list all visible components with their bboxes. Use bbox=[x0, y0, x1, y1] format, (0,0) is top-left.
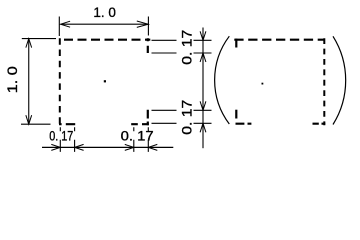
package outline (left view) bottom edge right terminal bbox=[131, 123, 149, 125]
dimension 0.17 bottom-right: right-pointing arrowhead bbox=[125, 144, 134, 150]
dimension 0.17 bottom-left: right-pointing arrowhead bbox=[51, 144, 60, 150]
dimension 1.0 left: top arrowhead bbox=[26, 39, 32, 48]
package outline (left view) bottom edge left terminal bbox=[59, 123, 75, 125]
dimension 0.17 bottom-right: left extension tick bbox=[133, 127, 135, 152]
dimension 0.17 right-top: upper extension line bbox=[152, 39, 212, 41]
dimension 0.17 right-bottom: upper extension line bbox=[152, 109, 212, 111]
svg-text:0. 17: 0. 17 bbox=[121, 129, 154, 145]
package outline (left view) left edge bbox=[59, 38, 61, 125]
package outline (right view) right edge bbox=[323, 38, 325, 125]
package outline (left view) right edge bottom terminal bbox=[147, 110, 149, 126]
dimension 0.17 bottom-right: right extension tick bbox=[147, 127, 149, 152]
svg-text:1. 0: 1. 0 bbox=[5, 66, 21, 93]
dimension 0.17 right-top: lower extension line bbox=[152, 52, 212, 54]
dimension 0.17 bottom-left: left extension tick bbox=[59, 127, 61, 152]
dimension 1.0 left: bottom arrowhead bbox=[26, 115, 32, 124]
dimension 0.17 bottom: dimension line bbox=[42, 146, 173, 148]
center mark dot (right view) bbox=[262, 83, 264, 85]
package outline (left view) right edge top terminal bbox=[147, 38, 149, 53]
dimension 0.17 right-top: down arrowhead bbox=[200, 31, 206, 40]
dimension 0.17 bottom-left: right extension tick bbox=[74, 127, 76, 152]
dimension 0.17 bottom-left: left-pointing arrowhead bbox=[75, 144, 84, 150]
dimension right: shared vertical dimension line bbox=[202, 28, 204, 149]
package outline (right view) top edge bbox=[234, 39, 324, 41]
dimension 0.17 bottom-right: left-pointing arrowhead bbox=[148, 144, 157, 150]
dimension 0.17 right-bottom: down arrowhead bbox=[200, 101, 206, 110]
dimension 1.0 left: bottom extension line bbox=[21, 123, 51, 125]
svg-text:0. 17: 0. 17 bbox=[180, 30, 196, 65]
dimension 1.0 top: right extension line bbox=[147, 17, 149, 36]
package outline (right view) bottom edge right dashes bbox=[313, 123, 326, 125]
package outline (right view) left edge top dash bbox=[235, 39, 237, 48]
svg-text:1. 0: 1. 0 bbox=[93, 5, 116, 21]
dimension 1.0 top: right arrowhead bbox=[137, 21, 148, 27]
body curve right arc bbox=[333, 36, 346, 124]
dimension 1.0 left: dimension line bbox=[28, 39, 30, 125]
dimension 0.17 right-top: up arrowhead bbox=[200, 53, 206, 62]
svg-text:0. 17: 0. 17 bbox=[49, 129, 73, 145]
svg-text:0. 17: 0. 17 bbox=[180, 100, 196, 135]
dimension 1.0 left: top extension line bbox=[22, 38, 56, 40]
center mark dot (left view) bbox=[104, 80, 106, 82]
package outline (right view) bottom edge left dashes bbox=[236, 123, 252, 125]
package outline (left view) top edge bbox=[60, 39, 150, 41]
body curve left arc bbox=[215, 36, 230, 124]
dimension 1.0 top: left extension line bbox=[58, 17, 60, 37]
dimension 1.0 top: left arrowhead bbox=[61, 21, 71, 27]
dimension 0.17 right-bottom: up arrowhead bbox=[200, 123, 206, 132]
dimension 0.17 right-bottom: lower extension line bbox=[152, 122, 212, 124]
package outline (right view) left edge bottom dash bbox=[235, 110, 237, 119]
dimension 1.0 top: dimension line bbox=[61, 23, 149, 25]
